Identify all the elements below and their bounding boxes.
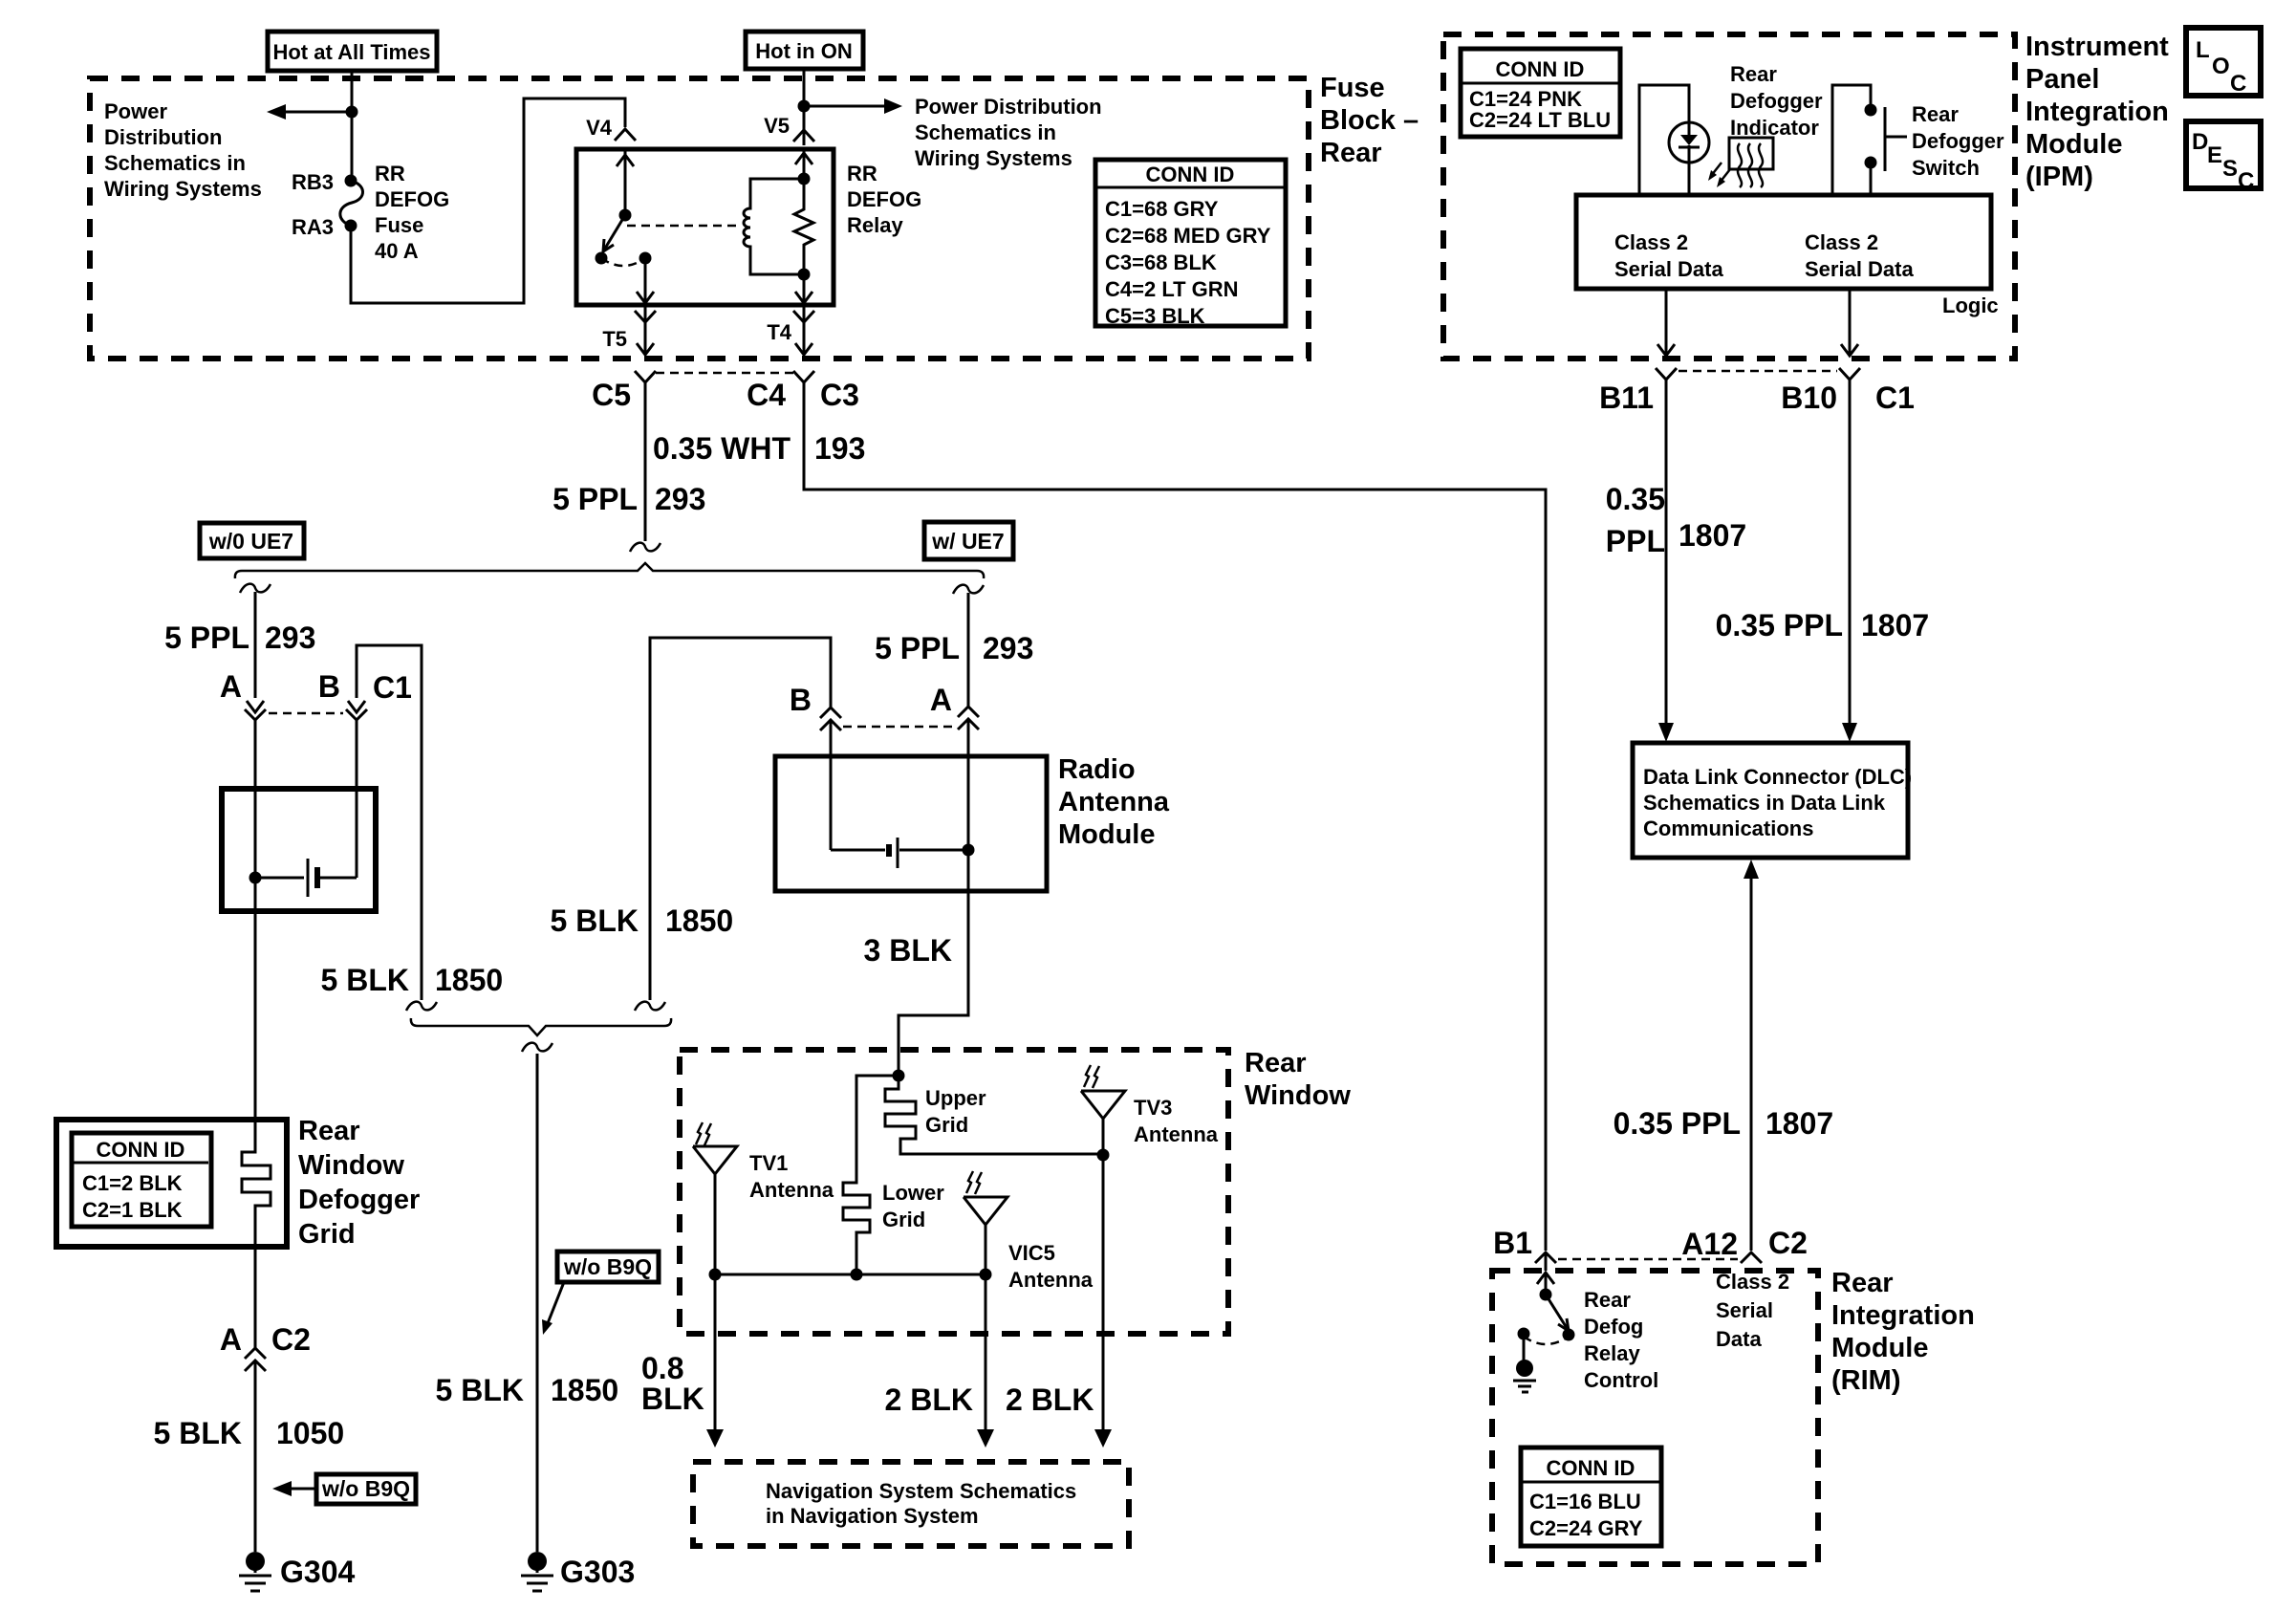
svg-text:Antenna: Antenna (1058, 787, 1170, 817)
relay coil L1 (744, 179, 804, 274)
svg-text:Switch: Switch (1912, 156, 1980, 180)
svg-text:Communications: Communications (1643, 816, 1813, 840)
wire: grid ground to G304 (254, 1206, 257, 1552)
wire label: 5 PPL 293 (w/ UE7) (875, 631, 1033, 665)
connector V4 (586, 116, 636, 141)
svg-text:C: C (2230, 71, 2246, 97)
svg-text:Integration: Integration (1831, 1300, 1975, 1331)
svg-text:Hot at All Times: Hot at All Times (272, 40, 430, 64)
svg-text:Rear: Rear (1245, 1048, 1307, 1078)
option box: w/ UE7 (924, 522, 1013, 559)
svg-text:Schematics in: Schematics in (104, 151, 246, 175)
connector B (radio antenna module) (790, 683, 841, 730)
svg-text:C: C (2238, 168, 2254, 194)
svg-text:2 BLK: 2 BLK (1006, 1382, 1094, 1417)
svg-text:Rear: Rear (1730, 62, 1777, 86)
svg-text:PPL: PPL (1606, 524, 1665, 558)
conn id table (fuse block) (1095, 160, 1286, 328)
module: Rear Integration Module dashed outline (1492, 1271, 1818, 1564)
wire break mark on radio ground wire (635, 1002, 665, 1011)
svg-text:Relay: Relay (847, 213, 903, 237)
svg-text:L: L (2196, 37, 2210, 63)
svg-text:5 BLK: 5 BLK (154, 1416, 242, 1450)
svg-text:C2=24 GRY: C2=24 GRY (1529, 1516, 1643, 1540)
wire label: 0.35 PPL 1807 (B11) (1606, 482, 1746, 558)
wire: fuse RA3 output to relay terminal V4 (351, 98, 625, 303)
switch S1 rear defogger (1865, 104, 1908, 172)
svg-text:1850: 1850 (551, 1373, 618, 1407)
label: Rear Window Defogger Grid (298, 1116, 420, 1250)
svg-text:Rear: Rear (1912, 102, 1959, 126)
connector C5 (592, 371, 656, 412)
svg-text:C3: C3 (820, 378, 859, 412)
LED indicator branch wires (1639, 85, 1689, 195)
wire break mark on w/ UE7 branch (953, 585, 984, 594)
svg-text:C2: C2 (271, 1322, 311, 1357)
dashed link B11 to B10 (1679, 370, 1837, 373)
svg-text:3 BLK: 3 BLK (864, 933, 952, 968)
connector A (radio antenna module) (930, 683, 979, 729)
wire: TV1 0.8 BLK to navigation (641, 1274, 724, 1448)
wire: relay common to T5 (637, 258, 654, 304)
svg-text:CONN ID: CONN ID (1496, 57, 1585, 81)
antenna TV3 (1081, 1065, 1219, 1431)
wire: TV3 2 BLK to navigation (1006, 1382, 1112, 1448)
dashed link B1 to A12 (1558, 1258, 1738, 1261)
rear defogger switch branch wires (1832, 85, 1871, 195)
battery element (grid feed) (255, 859, 357, 897)
dashed link C5 to C4 (656, 372, 793, 375)
svg-text:S: S (2222, 156, 2238, 182)
antenna VIC5 (964, 1171, 1094, 1292)
wire label: 3 BLK (864, 933, 952, 968)
svg-text:Window: Window (1245, 1080, 1351, 1111)
node: junction on V5 feed (798, 100, 811, 113)
wire break mark on C5 wire (630, 543, 661, 552)
svg-text:Data: Data (1716, 1327, 1762, 1351)
svg-text:TV1: TV1 (749, 1151, 788, 1175)
svg-text:Integration: Integration (2025, 97, 2169, 127)
wire: radio antenna module ground B to 1850 splice (650, 638, 831, 1000)
wire: arrow to Power Distribution Schematics (right) (804, 98, 902, 114)
svg-text:Antenna: Antenna (1134, 1122, 1219, 1146)
svg-text:C1: C1 (1875, 381, 1915, 415)
svg-text:Class 2: Class 2 (1805, 230, 1878, 254)
wire: feed from Hot at All Times down to fuse (351, 71, 354, 181)
label box: Hot at All Times (268, 32, 437, 71)
note: Power Distribution Schematics in Wiring Systems (right) (915, 95, 1102, 170)
svg-text:RB3: RB3 (292, 170, 334, 194)
connector V5 (764, 114, 814, 142)
svg-text:Relay: Relay (1584, 1341, 1640, 1365)
svg-text:RR: RR (847, 162, 877, 185)
rear defogger indicator icon (1729, 138, 1773, 187)
battery element (radio antenna module) (831, 838, 964, 868)
svg-text:Grid: Grid (298, 1219, 356, 1250)
svg-text:CONN ID: CONN ID (97, 1138, 185, 1162)
rear defog relay control driver (1518, 1273, 1575, 1361)
radio antenna module box (775, 756, 1047, 891)
loc reference box (2186, 28, 2261, 97)
svg-text:1850: 1850 (665, 903, 733, 938)
ground (RIM internal) (1513, 1360, 1536, 1392)
svg-text:Grid: Grid (882, 1208, 925, 1231)
svg-text:C5: C5 (592, 378, 631, 412)
wire: ground splice to G303 (536, 1054, 539, 1552)
wire break mark on C1 ground wire (406, 1002, 437, 1011)
label: Instrument Panel Integration Module (IPM) (2025, 32, 2169, 192)
wire: B11 to DLC (1658, 380, 1674, 742)
svg-text:40 A: 40 A (375, 239, 419, 263)
wire: arrow to Power Distribution Schematics (left) (267, 104, 352, 120)
wire: C5 down to splice (644, 382, 647, 541)
note box: Navigation System Schematics (dashed) (693, 1462, 1129, 1546)
conn id table (defogger grid) (72, 1133, 211, 1227)
note: Rear Defogger Indicator (1730, 62, 1823, 140)
svg-text:VIC5: VIC5 (1008, 1241, 1055, 1265)
svg-text:C4: C4 (747, 378, 786, 412)
svg-text:(IPM): (IPM) (2025, 162, 2093, 192)
svg-text:B1: B1 (1493, 1226, 1532, 1260)
svg-text:1050: 1050 (276, 1416, 344, 1450)
antenna TV1 (693, 1122, 834, 1274)
node: TV3 to upper grid wire (1097, 1149, 1110, 1162)
wire: A into defogger feed element (254, 720, 257, 911)
relay switch link dashed to coil (627, 225, 738, 228)
antenna bus wire (715, 1274, 986, 1276)
relay RR DEFOG Relay box (576, 149, 921, 305)
svg-text:Power Distribution: Power Distribution (915, 95, 1102, 119)
svg-text:Window: Window (298, 1150, 404, 1181)
svg-text:1807: 1807 (1679, 518, 1746, 553)
wire: logic to B10 (1841, 289, 1858, 356)
wire: 193 circuit C3 to RIM B1 (804, 382, 1546, 1251)
svg-text:B: B (790, 683, 812, 717)
conn id table (IPM) (1461, 49, 1620, 137)
wire: grid ground B up and over to 1850 splice (357, 645, 422, 1000)
wire: VIC5 2 BLK to navigation (885, 1274, 994, 1448)
LED emission arrows (1708, 163, 1730, 187)
svg-text:C2=68 MED GRY: C2=68 MED GRY (1105, 224, 1271, 248)
option box: w/0 UE7 (200, 523, 304, 558)
wire label: 5 PPL 293 (w/0 UE7) (164, 620, 315, 655)
module: Fuse Block - Rear dashed outline (90, 78, 1309, 359)
svg-text:C2=24 LT BLU: C2=24 LT BLU (1469, 108, 1611, 132)
wire: RIM A12/C2 up to DLC (1744, 860, 1759, 1251)
svg-text:1807: 1807 (1861, 608, 1929, 642)
svg-text:RA3: RA3 (292, 215, 334, 239)
svg-text:Logic: Logic (1942, 294, 1999, 317)
svg-text:A: A (930, 683, 952, 717)
upper grid element (885, 1076, 1103, 1154)
svg-text:Upper: Upper (925, 1086, 986, 1110)
svg-text:C5=3 BLK: C5=3 BLK (1105, 304, 1205, 328)
svg-text:C1=16 BLU: C1=16 BLU (1529, 1490, 1641, 1513)
rear window defogger grid feed element box (222, 789, 376, 911)
defogger grid heating element (242, 1120, 271, 1239)
splice brace w/0 UE7 - w/ UE7 (235, 563, 984, 578)
option box: w/o B9Q (G304 branch) (272, 1474, 416, 1504)
svg-text:5 BLK: 5 BLK (321, 963, 409, 997)
connector B11 (1599, 368, 1677, 415)
relay switch arm (596, 209, 652, 267)
svg-text:A12: A12 (1681, 1227, 1738, 1261)
svg-text:Rear: Rear (1584, 1288, 1631, 1312)
svg-text:CONN ID: CONN ID (1146, 163, 1235, 186)
connector T5 (602, 305, 656, 355)
svg-text:Fuse: Fuse (375, 213, 423, 237)
wire: A feed down to defogger grid (254, 911, 257, 1120)
wire label: 5 BLK 1850 (radio ground) (551, 903, 734, 938)
wire: relay coil to T4 (795, 274, 812, 304)
svg-text:293: 293 (655, 482, 705, 516)
svg-text:5 PPL: 5 PPL (164, 620, 249, 655)
svg-text:Defogger: Defogger (298, 1185, 420, 1215)
svg-text:Class 2: Class 2 (1716, 1270, 1789, 1294)
node: TV1 to bus (709, 1269, 722, 1281)
note: Rear Defogger Switch (1912, 102, 2004, 180)
svg-text:A: A (220, 669, 242, 704)
svg-text:Antenna: Antenna (749, 1178, 834, 1202)
fuse RR DEFOG 40 A (292, 162, 449, 263)
svg-text:DEFOG: DEFOG (375, 187, 449, 211)
lower grid element (843, 1076, 944, 1274)
svg-text:B10: B10 (1781, 381, 1837, 415)
svg-text:Indicator: Indicator (1730, 116, 1819, 140)
svg-text:Wiring Systems: Wiring Systems (104, 177, 262, 201)
node: battery tap on radio A wire (963, 844, 975, 857)
svg-text:Fuse: Fuse (1320, 73, 1385, 103)
svg-text:Rear: Rear (1320, 138, 1382, 168)
node: lower grid to bus (851, 1269, 863, 1281)
svg-text:w/ UE7: w/ UE7 (931, 529, 1004, 554)
relay resistor (794, 179, 813, 281)
note: Rear Defog Relay Control (1584, 1288, 1658, 1392)
wire: radio antenna module to rear window grids (899, 891, 968, 1076)
note box: Data Link Connector (DLC) (1633, 743, 1912, 858)
note: Class 2 Serial Data (RIM) (1716, 1270, 1789, 1351)
svg-text:C3=68 BLK: C3=68 BLK (1105, 250, 1217, 274)
svg-text:0.35 WHT: 0.35 WHT (653, 431, 791, 466)
svg-text:Serial: Serial (1716, 1298, 1773, 1322)
svg-text:5 BLK: 5 BLK (551, 903, 639, 938)
connector T4 (767, 305, 814, 355)
svg-text:Power: Power (104, 99, 167, 123)
label: Fuse Block - Rear (1320, 73, 1419, 168)
svg-text:w/0 UE7: w/0 UE7 (208, 529, 293, 554)
svg-text:Serial Data: Serial Data (1614, 257, 1723, 281)
label: Rear Integration Module (RIM) (1831, 1268, 1975, 1396)
svg-text:0.8: 0.8 (641, 1351, 683, 1385)
wire label: 5 BLK 1850 (C1 ground) (321, 963, 504, 997)
svg-text:193: 193 (814, 431, 865, 466)
connector A12 / C2 (1681, 1226, 1808, 1263)
svg-text:V4: V4 (586, 116, 613, 140)
svg-text:5 PPL: 5 PPL (552, 482, 638, 516)
svg-text:Wiring Systems: Wiring Systems (915, 146, 1072, 170)
wire break mark on w/0 UE7 branch (240, 584, 271, 593)
relay switch pole wire (V4 side) (617, 151, 634, 215)
module: Rear Window dashed outline (680, 1050, 1228, 1334)
node: battery tap on A wire (249, 872, 262, 884)
svg-text:1807: 1807 (1765, 1106, 1833, 1141)
LED D1 rear defogger indicator (1669, 122, 1709, 163)
svg-text:Schematics in Data Link: Schematics in Data Link (1643, 791, 1886, 815)
connector B10 / C1 (1781, 368, 1915, 415)
wire: Hot in ON feed to relay terminal V5 (803, 69, 806, 145)
node: grid junction (893, 1070, 905, 1082)
svg-text:2 BLK: 2 BLK (885, 1382, 973, 1417)
svg-text:Radio: Radio (1058, 754, 1136, 785)
svg-text:Module: Module (2025, 129, 2123, 160)
dashed link B to A (843, 726, 956, 729)
svg-text:V5: V5 (764, 114, 790, 138)
svg-text:T5: T5 (602, 327, 627, 351)
svg-text:E: E (2207, 142, 2222, 168)
svg-text:w/o B9Q: w/o B9Q (321, 1476, 410, 1501)
svg-text:A: A (220, 1322, 242, 1357)
wire: B down into defogger feed element (356, 720, 358, 878)
svg-text:BLK: BLK (641, 1382, 704, 1416)
svg-text:O: O (2212, 54, 2230, 79)
connector C4 / C3 (747, 371, 859, 412)
svg-text:Defog: Defog (1584, 1315, 1643, 1339)
svg-text:Rear: Rear (298, 1116, 360, 1146)
svg-text:Schematics in: Schematics in (915, 120, 1056, 144)
note: Power Distribution Schematics in Wiring Systems (left) (104, 99, 262, 201)
svg-text:C1=68 GRY: C1=68 GRY (1105, 197, 1219, 221)
svg-text:B: B (318, 669, 340, 704)
svg-text:Defogger: Defogger (1730, 89, 1823, 113)
IPM logic box (1576, 195, 1999, 317)
svg-text:Module: Module (1058, 819, 1156, 850)
svg-text:0.35 PPL: 0.35 PPL (1716, 608, 1843, 642)
svg-text:C2: C2 (1768, 1226, 1808, 1260)
desc reference box (2186, 121, 2261, 194)
node: junction on feed wire (346, 106, 358, 119)
svg-text:C4=2 LT GRN: C4=2 LT GRN (1105, 277, 1239, 301)
ground G304 (239, 1552, 355, 1591)
connector B / C1 (defogger grid ground) (318, 669, 412, 720)
label box: Hot in ON (746, 32, 863, 69)
wire label: 0.35 PPL 1807 (C1) (1716, 608, 1930, 642)
module: Instrument Panel Integration Module dashed outline (1443, 34, 2015, 359)
wire: w/ UE7 branch down through connector A into radio antenna module (967, 593, 970, 891)
svg-text:Rear: Rear (1831, 1268, 1894, 1298)
svg-text:Instrument: Instrument (2025, 32, 2169, 62)
option box: w/o B9Q (G303 branch) (542, 1252, 659, 1335)
wire: B10/C1 to DLC (1842, 380, 1857, 742)
svg-text:Defogger: Defogger (1912, 129, 2004, 153)
wire break mark below ground splice (522, 1043, 552, 1052)
svg-text:D: D (2192, 129, 2208, 155)
relay coil input wire (V5 side) (795, 149, 812, 185)
svg-text:Control: Control (1584, 1368, 1658, 1392)
svg-text:Serial Data: Serial Data (1805, 257, 1914, 281)
wire label: 0.35 PPL 1807 (A12) (1614, 1106, 1834, 1141)
label: Rear Window (1245, 1048, 1351, 1111)
svg-text:Hot in ON: Hot in ON (755, 39, 852, 63)
svg-text:TV3: TV3 (1134, 1096, 1172, 1120)
svg-text:Block –: Block – (1320, 105, 1419, 136)
svg-text:293: 293 (265, 620, 315, 655)
svg-text:DEFOG: DEFOG (847, 187, 921, 211)
svg-text:C1=2 BLK: C1=2 BLK (82, 1171, 183, 1195)
svg-text:T4: T4 (767, 320, 791, 344)
svg-text:C1: C1 (373, 670, 412, 705)
svg-text:G304: G304 (280, 1555, 355, 1589)
node: VIC5 to bus (980, 1269, 992, 1281)
conn id table (RIM) (1521, 1448, 1661, 1546)
svg-text:G303: G303 (560, 1555, 635, 1589)
connector A / C2 (grid ground) (220, 1322, 311, 1371)
svg-text:B11: B11 (1599, 381, 1654, 415)
connector B1 (1493, 1226, 1556, 1271)
svg-text:Antenna: Antenna (1008, 1268, 1094, 1292)
svg-text:in Navigation System: in Navigation System (766, 1504, 979, 1528)
svg-text:Navigation System Schematics: Navigation System Schematics (766, 1479, 1076, 1503)
dashed link A to B (269, 712, 343, 715)
svg-text:1850: 1850 (435, 963, 503, 997)
ground G303 (521, 1552, 635, 1591)
svg-text:Class 2: Class 2 (1614, 230, 1688, 254)
svg-text:C2=1 BLK: C2=1 BLK (82, 1198, 183, 1222)
svg-text:w/o B9Q: w/o B9Q (563, 1254, 652, 1279)
ground splice brace (1850) (411, 1018, 671, 1035)
wire label: 5 PPL 293 (C5 feed) (552, 482, 705, 516)
rear window defogger grid box (56, 1120, 287, 1247)
wire: w/0 UE7 branch down to connector A (254, 592, 257, 698)
svg-text:0.35 PPL: 0.35 PPL (1614, 1106, 1741, 1141)
svg-text:5 PPL: 5 PPL (875, 631, 960, 665)
svg-text:293: 293 (983, 631, 1033, 665)
svg-text:Panel: Panel (2025, 64, 2099, 95)
svg-text:0.35: 0.35 (1606, 482, 1665, 516)
svg-text:RR: RR (375, 162, 405, 185)
wire label: 5 BLK 1850 (G303) (436, 1373, 619, 1407)
wire label: 5 BLK 1050 (154, 1416, 345, 1450)
svg-text:Data Link Connector (DLC): Data Link Connector (DLC) (1643, 765, 1912, 789)
svg-text:Grid: Grid (925, 1113, 968, 1137)
svg-text:Module: Module (1831, 1333, 1929, 1363)
wire label: 0.35 WHT 193 (653, 431, 865, 466)
wire: logic to B11 (1657, 289, 1675, 356)
label: Radio Antenna Module (1058, 754, 1170, 850)
svg-text:CONN ID: CONN ID (1547, 1456, 1635, 1480)
connector A (defogger grid feed) (220, 669, 266, 720)
svg-text:(RIM): (RIM) (1831, 1365, 1900, 1396)
svg-text:5 BLK: 5 BLK (436, 1373, 524, 1407)
svg-text:Lower: Lower (882, 1181, 944, 1205)
svg-text:Distribution: Distribution (104, 125, 222, 149)
